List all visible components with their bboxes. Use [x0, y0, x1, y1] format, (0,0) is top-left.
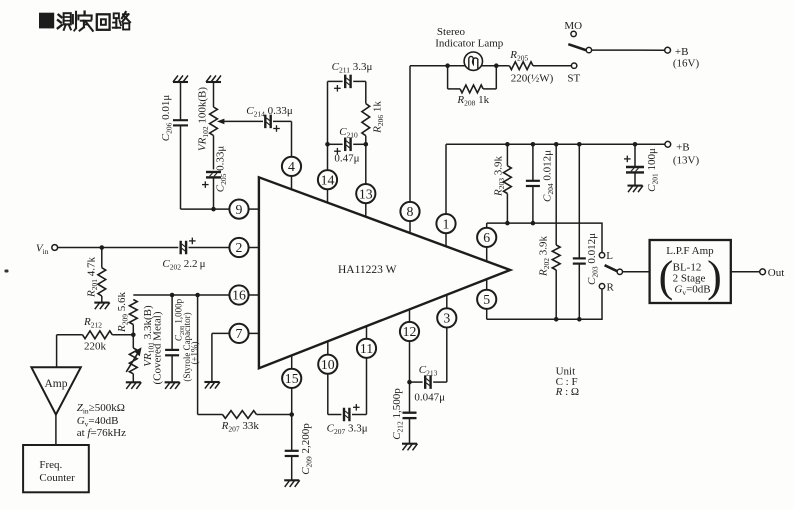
svg-text:R209​ 5.6k: R209​ 5.6k	[116, 292, 129, 333]
svg-text:C205​ 0.33μ: C205​ 0.33μ	[215, 146, 228, 193]
svg-text:11: 11	[360, 341, 373, 356]
svg-text:Stereo: Stereo	[437, 26, 466, 38]
svg-text:8: 8	[407, 204, 414, 219]
svg-text:16: 16	[232, 288, 246, 303]
svg-text:C206​ 0.01μ: C206​ 0.01μ	[160, 95, 173, 142]
svg-text:7: 7	[236, 326, 243, 341]
svg-text:0.047μ: 0.047μ	[414, 392, 445, 404]
svg-text:5: 5	[483, 292, 490, 307]
svg-text:0.47μ: 0.47μ	[334, 153, 359, 165]
svg-text:ST: ST	[567, 72, 580, 84]
svg-text:R202​ 3.9k: R202​ 3.9k	[538, 236, 551, 277]
svg-text:13: 13	[359, 186, 373, 201]
svg-text:at f=76kHz: at f=76kHz	[77, 427, 126, 439]
svg-text:+B: +B	[676, 142, 690, 154]
svg-text:VR102​ 100k(B): VR102​ 100k(B)	[197, 87, 210, 151]
svg-text:Amp: Amp	[45, 378, 68, 390]
svg-text:Counter: Counter	[39, 472, 75, 484]
svg-text:220(½W): 220(½W)	[511, 73, 554, 85]
svg-text:R201​ 4.7k: R201​ 4.7k	[86, 257, 99, 298]
svg-text:(16V): (16V)	[673, 58, 700, 70]
svg-text:12: 12	[403, 324, 417, 339]
svg-text:Indicator Lamp: Indicator Lamp	[435, 38, 504, 50]
svg-text:Gv​=0dB: Gv​=0dB	[674, 284, 710, 297]
svg-text:220k: 220k	[84, 341, 107, 353]
svg-text:HA11223 W: HA11223 W	[338, 264, 397, 276]
svg-text:Out: Out	[768, 267, 785, 279]
svg-text:BL-12: BL-12	[673, 261, 702, 273]
svg-text:): )	[707, 252, 722, 301]
svg-text:(: (	[659, 252, 674, 301]
svg-text:MO: MO	[564, 20, 582, 32]
svg-text:R203​ 3.9k: R203​ 3.9k	[493, 156, 506, 197]
svg-text:6: 6	[483, 230, 490, 245]
svg-text:14: 14	[321, 172, 335, 187]
svg-text:2: 2	[236, 240, 243, 255]
svg-text:9: 9	[236, 202, 243, 217]
svg-text:R207​ 33k: R207​ 33k	[221, 420, 260, 433]
svg-text:+B: +B	[675, 46, 689, 58]
svg-text:R: R	[607, 282, 615, 294]
svg-text:4: 4	[288, 159, 295, 174]
svg-text:R : Ω: R : Ω	[555, 386, 579, 398]
svg-text:C211​ 3.3μ: C211​ 3.3μ	[332, 61, 373, 74]
svg-text:3: 3	[443, 311, 450, 326]
svg-text:10: 10	[321, 357, 335, 372]
svg-text:(Covered Metal): (Covered Metal)	[152, 311, 164, 384]
svg-text:C202​ 2.2 μ: C202​ 2.2 μ	[162, 258, 205, 271]
svg-text:L: L	[606, 250, 613, 262]
svg-text:(13V): (13V)	[673, 155, 700, 167]
svg-text:C201​ 100μ: C201​ 100μ	[646, 148, 659, 192]
svg-text:1: 1	[443, 216, 450, 231]
svg-text:15: 15	[285, 371, 299, 386]
svg-text:C207​ 3.3μ: C207​ 3.3μ	[327, 423, 368, 436]
svg-text:C214​ 0.33μ: C214​ 0.33μ	[246, 105, 293, 118]
svg-text:Freq.: Freq.	[39, 459, 62, 471]
